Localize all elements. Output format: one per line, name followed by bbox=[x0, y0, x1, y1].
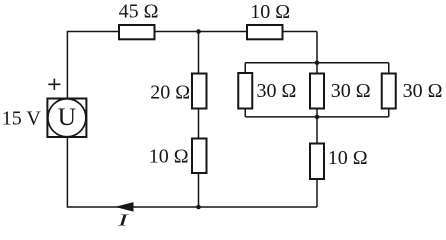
svg-text:I: I bbox=[116, 211, 130, 230]
svg-text:30 Ω: 30 Ω bbox=[403, 80, 443, 102]
svg-text:10 Ω: 10 Ω bbox=[250, 1, 290, 23]
svg-text:U: U bbox=[58, 102, 76, 131]
svg-text:30 Ω: 30 Ω bbox=[331, 80, 371, 102]
svg-text:15 V: 15 V bbox=[2, 107, 42, 129]
svg-text:30 Ω: 30 Ω bbox=[257, 80, 297, 102]
svg-text:45 Ω: 45 Ω bbox=[119, 0, 159, 22]
svg-text:10 Ω: 10 Ω bbox=[149, 146, 189, 168]
svg-text:10 Ω: 10 Ω bbox=[328, 147, 368, 169]
svg-text:20 Ω: 20 Ω bbox=[150, 82, 190, 104]
